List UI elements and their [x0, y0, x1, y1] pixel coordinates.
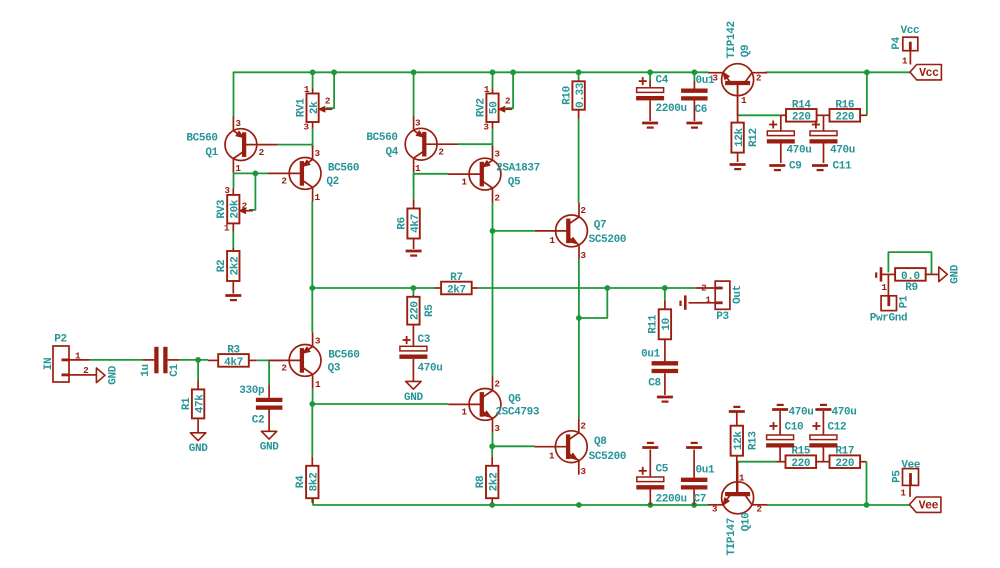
svg-text:Q7: Q7 [594, 220, 607, 232]
svg-text:C11: C11 [833, 161, 853, 173]
svg-text:2: 2 [580, 421, 586, 432]
ground below C11 [812, 164, 828, 167]
svg-text:2: 2 [580, 205, 586, 216]
power ground above C12 [815, 408, 831, 411]
junction dots output node [604, 285, 610, 291]
junction dots Vcc rail [310, 69, 316, 75]
wire R9 bridge [888, 252, 931, 274]
svg-text:1: 1 [484, 84, 490, 95]
svg-text:C8: C8 [648, 378, 661, 390]
ground below C3 [406, 381, 421, 389]
resistor R3 4k7 [208, 359, 218, 361]
svg-text:0u1: 0u1 [641, 349, 661, 361]
svg-text:1: 1 [75, 351, 81, 362]
wire Vee bus right [766, 504, 909, 506]
svg-text:Vee: Vee [919, 500, 939, 513]
wire Q7 base branch [493, 230, 535, 232]
svg-text:1: 1 [461, 176, 467, 187]
transistor Q6 2SC4793 [469, 389, 501, 421]
svg-text:220: 220 [792, 112, 811, 124]
svg-text:2: 2 [281, 176, 287, 187]
capacitor C7 0u1 [693, 450, 695, 478]
svg-text:R4: R4 [295, 475, 307, 488]
svg-text:0.33: 0.33 [575, 82, 587, 108]
svg-text:R7: R7 [450, 272, 463, 284]
resistor R9 0.0 [895, 268, 926, 281]
capacitor C10 470u [779, 411, 781, 435]
svg-text:SC5200: SC5200 [589, 234, 627, 246]
wire C1 to R3 [179, 359, 208, 361]
svg-text:3: 3 [494, 423, 500, 434]
svg-text:3: 3 [415, 118, 421, 129]
svg-text:2200u: 2200u [656, 494, 687, 506]
svg-text:GND: GND [260, 442, 280, 454]
svg-text:1: 1 [461, 407, 467, 418]
transistor Q9 TIP142 [722, 64, 754, 96]
svg-text:1: 1 [315, 192, 321, 203]
wire R13 node to R15 [737, 461, 777, 463]
svg-text:C7: C7 [694, 494, 707, 506]
svg-text:Q1: Q1 [205, 147, 218, 159]
power ground left of R9 [880, 267, 883, 281]
wire Q3 emitter to node [312, 389, 314, 405]
wire R5 top [412, 288, 414, 295]
resistor R6 4k7 [413, 200, 415, 209]
resistor R8 2k2 [491, 457, 493, 466]
wire node to R4 [311, 404, 313, 457]
svg-text:Vcc: Vcc [919, 67, 939, 80]
svg-text:2k: 2k [309, 101, 321, 114]
wire Q1 base to Q2 collector node [278, 144, 313, 146]
svg-text:220: 220 [410, 301, 422, 320]
svg-text:330p: 330p [239, 385, 265, 397]
resistor R10 0.33 [572, 81, 584, 109]
svg-text:Q9: Q9 [740, 45, 752, 58]
resistor R15 220 [786, 455, 817, 468]
svg-text:2: 2 [701, 282, 707, 293]
svg-text:P2: P2 [54, 334, 67, 346]
resistor R11 10 [664, 288, 666, 300]
svg-text:C3: C3 [418, 334, 431, 346]
transistor Q3 BC560 [289, 345, 321, 377]
wire R13 to Q10 base [736, 456, 738, 494]
svg-text:1: 1 [705, 294, 711, 305]
svg-text:PwrGnd: PwrGnd [870, 313, 908, 325]
transistor Q7 2SC5200 [556, 215, 588, 247]
capacitor C4 2200u [649, 81, 651, 88]
svg-text:2: 2 [756, 504, 762, 515]
svg-text:2k2: 2k2 [230, 257, 242, 276]
svg-text:GND: GND [108, 365, 120, 385]
svg-text:P4: P4 [891, 36, 903, 49]
svg-text:RV1: RV1 [296, 98, 308, 118]
transistor Q1 BC560 [225, 129, 257, 161]
connector P1 PwrGnd [881, 296, 896, 311]
wire node to R8 [491, 446, 493, 457]
svg-text:C9: C9 [789, 161, 802, 173]
svg-text:2: 2 [494, 193, 500, 204]
connector P4 Vcc [903, 37, 918, 51]
ground below R2 [225, 294, 241, 297]
svg-text:P5: P5 [892, 470, 904, 483]
svg-text:C4: C4 [656, 75, 669, 87]
svg-text:Q6: Q6 [508, 394, 521, 406]
resistor R13 12k [731, 426, 743, 456]
svg-text:2k7: 2k7 [447, 284, 466, 296]
svg-text:12k: 12k [733, 431, 745, 451]
svg-text:P1: P1 [899, 295, 911, 308]
capacitor C2 330p [268, 360, 270, 385]
power ground above R13 [729, 410, 745, 413]
resistor R7 2k7 [434, 287, 441, 289]
svg-text:220: 220 [835, 112, 854, 124]
svg-text:GND: GND [189, 443, 209, 455]
wire RV1 bottom to Q2 collector [312, 129, 314, 149]
svg-text:1: 1 [549, 235, 555, 246]
wire Q5 emitter to Q6 collector [492, 202, 494, 377]
wire C6 top lead [693, 72, 695, 81]
resistor R12 12k [737, 116, 739, 123]
power ground at P3 pin 1 [684, 295, 687, 309]
connector P3 Out [715, 281, 730, 309]
svg-text:C6: C6 [695, 104, 708, 116]
ground below R6 [406, 250, 422, 253]
svg-text:1: 1 [304, 84, 310, 95]
svg-text:3: 3 [315, 148, 321, 159]
svg-text:C5: C5 [656, 464, 669, 476]
junction dot Q3 emitter node [309, 401, 315, 407]
svg-text:1: 1 [415, 163, 421, 174]
svg-text:1: 1 [739, 473, 745, 484]
wire Q4 emitter to R6 [413, 174, 415, 200]
svg-text:2: 2 [505, 96, 511, 107]
svg-text:470u: 470u [832, 407, 857, 419]
svg-text:2: 2 [494, 379, 500, 390]
wire node to Q6 base [312, 403, 448, 405]
junction dot Q1-Q2 node [253, 171, 259, 177]
wire bus to Q3 collector [311, 288, 313, 332]
wire P2 to C1 [90, 359, 144, 361]
resistor R14 220 [786, 109, 817, 122]
svg-text:IN: IN [43, 358, 55, 371]
svg-text:TIP142: TIP142 [726, 21, 738, 59]
ground below C4 [642, 122, 658, 125]
svg-text:3: 3 [712, 73, 718, 84]
junction dot R5 node [411, 285, 417, 291]
wire output node branch [579, 288, 607, 318]
svg-text:47k: 47k [194, 394, 206, 414]
connector P2 IN [53, 346, 69, 382]
wire RV2 bottom to Q5 collector [492, 129, 494, 149]
power ground above C10 [772, 408, 788, 411]
ground below R12 [730, 163, 746, 166]
svg-text:R17: R17 [835, 446, 854, 458]
wire RV2 wiper riser [506, 72, 513, 108]
svg-text:20k: 20k [230, 199, 242, 219]
svg-text:R9: R9 [905, 282, 918, 294]
svg-text:1: 1 [235, 163, 241, 174]
wire Vcc rail [234, 72, 709, 117]
svg-text:2200u: 2200u [656, 103, 687, 115]
svg-text:1: 1 [902, 56, 908, 67]
connector P5 Vee [903, 469, 919, 486]
junction dot Q6 emitter node [489, 443, 495, 449]
svg-text:Q5: Q5 [508, 176, 521, 188]
transistor Q2 BC560 [289, 158, 321, 190]
wire Q7 emitter to Q8 collector [578, 259, 580, 419]
svg-text:R15: R15 [791, 446, 811, 458]
svg-text:1: 1 [224, 223, 230, 234]
svg-text:Q2: Q2 [326, 176, 339, 188]
resistor R1 47k [197, 381, 199, 390]
svg-text:220: 220 [835, 458, 854, 470]
svg-text:10: 10 [661, 318, 673, 331]
svg-text:C1: C1 [169, 364, 181, 377]
svg-text:C2: C2 [252, 414, 265, 426]
wire Vcc rail right segment [766, 71, 910, 73]
potentiometer RV3 20k [232, 189, 234, 195]
svg-text:TIP147: TIP147 [726, 518, 738, 556]
svg-text:470u: 470u [789, 407, 814, 419]
power ground above C5 [642, 446, 658, 449]
svg-text:Vcc: Vcc [901, 25, 920, 37]
svg-text:2: 2 [756, 73, 762, 84]
svg-text:R1: R1 [181, 397, 193, 410]
capacitor C3 470u [412, 325, 414, 347]
svg-text:R6: R6 [396, 217, 408, 230]
svg-text:1: 1 [315, 379, 321, 390]
svg-text:C10: C10 [785, 422, 804, 434]
transistor Q8 2SC5200 [555, 431, 587, 463]
svg-text:2: 2 [259, 147, 265, 158]
svg-text:GND: GND [950, 264, 962, 284]
svg-text:C12: C12 [828, 422, 847, 434]
GND flag right of R9 [939, 267, 948, 282]
svg-text:R11: R11 [648, 314, 660, 334]
svg-text:1: 1 [881, 282, 887, 293]
svg-text:P3: P3 [716, 311, 729, 323]
junction dot Q7 base node [490, 228, 496, 234]
resistor R16 220 [830, 109, 861, 122]
svg-text:BC560: BC560 [366, 132, 397, 144]
svg-text:R8: R8 [475, 475, 487, 488]
transistor Q4 BC560 [405, 128, 437, 160]
svg-text:8k2: 8k2 [309, 473, 321, 492]
svg-text:3: 3 [494, 149, 500, 160]
wire Q2 emitter to bus [311, 201, 313, 288]
svg-text:3: 3 [315, 336, 321, 347]
capacitor C6 0u1 [693, 81, 695, 89]
wire C4 top lead [649, 72, 651, 80]
wire node to Q8 base [492, 445, 535, 447]
potentiometer RV2 50 [492, 89, 494, 94]
capacitor C9 470u [780, 115, 782, 131]
wire Q9 base node to R14 [738, 114, 781, 116]
svg-text:BC560: BC560 [328, 163, 359, 175]
svg-text:R13: R13 [747, 431, 759, 451]
svg-text:R5: R5 [424, 304, 436, 317]
ground below C9 [769, 164, 785, 167]
wire Q4 emitter node to Q5 base [413, 172, 415, 188]
svg-text:470u: 470u [787, 145, 812, 157]
capacitor C1 1u [143, 359, 154, 361]
wire R16 to Vcc rail riser [866, 72, 868, 115]
capacitor C12 470u [822, 411, 824, 435]
svg-text:RV2: RV2 [475, 98, 487, 117]
svg-text:3: 3 [580, 250, 586, 261]
svg-text:2SA1837: 2SA1837 [496, 163, 540, 175]
potentiometer RV1 2k [312, 89, 314, 94]
svg-text:2: 2 [325, 96, 331, 107]
svg-text:3: 3 [483, 122, 489, 133]
svg-text:470u: 470u [830, 145, 855, 157]
svg-text:2SC4793: 2SC4793 [495, 407, 540, 419]
wire R3 to Q3 base [256, 359, 283, 361]
wire RV1 wiper riser [326, 72, 334, 108]
svg-text:BC560: BC560 [328, 349, 359, 361]
wire RV3 bottom to R2 [232, 232, 234, 249]
svg-text:Q8: Q8 [594, 436, 607, 448]
svg-text:BC560: BC560 [186, 133, 217, 145]
svg-text:2k2: 2k2 [488, 473, 500, 492]
svg-text:3: 3 [712, 504, 718, 515]
resistor R4 8k2 [311, 457, 313, 466]
svg-text:3: 3 [224, 185, 230, 196]
svg-text:2: 2 [438, 147, 444, 158]
junction dot Q2 emitter bus node [309, 285, 315, 291]
wire R10 bottom to Q7 collector [578, 119, 580, 204]
svg-text:R14: R14 [792, 99, 812, 111]
ground below R1 [190, 433, 205, 441]
ground below C2 [261, 431, 276, 439]
svg-text:1u: 1u [140, 364, 152, 377]
Vcc net flag [910, 65, 942, 80]
svg-text:R10: R10 [561, 86, 573, 105]
svg-text:0.0: 0.0 [901, 271, 920, 283]
wire Q6 emitter to node [492, 432, 494, 446]
junction dot C1-R1 node [195, 357, 201, 363]
svg-text:1: 1 [741, 95, 747, 106]
svg-text:GND: GND [404, 392, 424, 404]
svg-text:Q4: Q4 [385, 147, 398, 159]
svg-text:1: 1 [549, 451, 555, 462]
Vee net flag [909, 497, 941, 512]
svg-text:3: 3 [235, 118, 241, 129]
svg-text:R3: R3 [227, 344, 240, 356]
capacitor C11 470u [823, 115, 825, 131]
svg-text:12k: 12k [734, 127, 746, 147]
svg-text:3: 3 [580, 466, 586, 477]
wire Q4 collector drop [413, 72, 415, 117]
svg-text:4k7: 4k7 [410, 214, 422, 233]
svg-text:3: 3 [303, 122, 309, 133]
wire RV2 top [492, 72, 494, 88]
wire R1 top [197, 360, 199, 381]
wire middle bus right [479, 287, 696, 289]
svg-text:50: 50 [489, 102, 501, 115]
svg-text:Vee: Vee [901, 459, 921, 471]
power ground above C7 [686, 446, 702, 449]
svg-text:2: 2 [281, 363, 287, 374]
svg-text:R16: R16 [835, 99, 854, 111]
svg-text:SC5200: SC5200 [589, 451, 627, 463]
svg-text:4k7: 4k7 [224, 357, 243, 369]
capacitor C5 2200u [649, 450, 651, 478]
ground flag at P2 pin 2 [81, 374, 97, 376]
wire R10 top [578, 72, 580, 81]
wire Vee bus [313, 498, 709, 505]
resistor R5 220 [412, 295, 414, 297]
svg-text:1: 1 [900, 488, 906, 499]
ground below C8 [657, 396, 673, 399]
svg-text:470u: 470u [418, 362, 443, 374]
wire middle bus left [312, 287, 434, 289]
transistor Q10 TIP147 [722, 482, 754, 514]
capacitor C8 0u1 [664, 339, 666, 361]
wire RV3 wiper to node [249, 173, 255, 210]
ground below C6 [686, 122, 702, 125]
svg-text:Q3: Q3 [328, 363, 341, 375]
svg-text:0u1: 0u1 [696, 465, 716, 477]
wire Q1 emitter node to Q2 base [233, 173, 235, 189]
wire R17 riser to Vee bus [866, 462, 868, 505]
wire Q4 base to Q5 collector node [458, 143, 493, 145]
svg-text:RV3: RV3 [216, 199, 228, 219]
svg-text:2: 2 [242, 200, 248, 211]
svg-text:R12: R12 [748, 128, 760, 147]
resistor R2 2k2 [232, 248, 234, 251]
svg-text:Out: Out [732, 285, 744, 304]
wire RV1 top [312, 72, 314, 88]
resistor R17 220 [830, 455, 861, 468]
junction dots Vee bus [489, 502, 495, 508]
svg-text:220: 220 [791, 458, 810, 470]
transistor Q5 2SA1837 [469, 158, 501, 190]
svg-text:R2: R2 [216, 260, 228, 273]
svg-text:Q10: Q10 [741, 513, 753, 532]
